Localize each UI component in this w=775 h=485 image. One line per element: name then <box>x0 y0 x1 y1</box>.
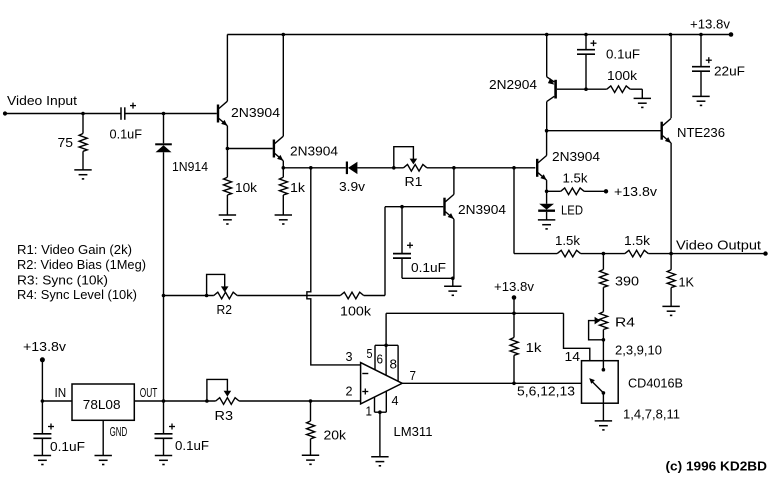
svg-text:5: 5 <box>367 346 373 361</box>
svg-text:3: 3 <box>346 349 353 364</box>
svg-text:R2: Video Bias (1Meg): R2: Video Bias (1Meg) <box>17 258 146 272</box>
svg-text:Video Input: Video Input <box>7 93 77 108</box>
svg-text:R2: R2 <box>217 302 233 317</box>
svg-text:2N3904: 2N3904 <box>552 149 600 164</box>
svg-text:1.5k: 1.5k <box>563 171 589 186</box>
svg-text:2N2904: 2N2904 <box>489 77 537 92</box>
svg-text:0.1uF: 0.1uF <box>110 126 143 141</box>
svg-text:+13.8v: +13.8v <box>494 279 534 294</box>
svg-text:2N3904: 2N3904 <box>458 202 506 217</box>
svg-text:5,6,12,13: 5,6,12,13 <box>517 384 575 399</box>
svg-text:R3: Sync (10k): R3: Sync (10k) <box>17 274 108 288</box>
svg-text:3.9v: 3.9v <box>339 179 366 194</box>
svg-text:+13.8v: +13.8v <box>23 339 67 354</box>
svg-text:2,3,9,10: 2,3,9,10 <box>615 343 662 358</box>
svg-text:6: 6 <box>377 352 384 367</box>
svg-text:1k: 1k <box>526 340 543 355</box>
svg-text:1N914: 1N914 <box>172 159 208 174</box>
svg-text:0.1uF: 0.1uF <box>411 260 446 275</box>
svg-text:LM311: LM311 <box>394 424 433 439</box>
svg-text:4: 4 <box>392 393 399 408</box>
svg-text:IN: IN <box>55 385 67 400</box>
svg-text:LED: LED <box>561 203 583 218</box>
svg-text:2N3904: 2N3904 <box>231 105 280 120</box>
svg-text:75: 75 <box>58 135 74 150</box>
svg-text:R1: Video Gain (2k): R1: Video Gain (2k) <box>17 243 132 257</box>
svg-text:0.1uF: 0.1uF <box>50 439 85 454</box>
svg-text:R4: Sync Level (10k): R4: Sync Level (10k) <box>17 288 137 302</box>
svg-text:NTE236: NTE236 <box>677 125 725 140</box>
svg-text:1,4,7,8,11: 1,4,7,8,11 <box>623 407 680 422</box>
svg-text:0.1uF: 0.1uF <box>606 47 640 62</box>
svg-text:390: 390 <box>615 274 639 289</box>
svg-text:78L08: 78L08 <box>83 397 121 412</box>
svg-text:10k: 10k <box>235 180 258 195</box>
svg-text:OUT: OUT <box>140 385 158 400</box>
svg-text:+13.8v: +13.8v <box>614 184 658 199</box>
svg-text:CD4016B: CD4016B <box>628 376 683 391</box>
svg-text:R4: R4 <box>615 315 635 330</box>
svg-text:R1: R1 <box>405 174 423 189</box>
svg-text:GND: GND <box>110 424 128 439</box>
svg-text:14: 14 <box>565 349 581 364</box>
svg-text:20k: 20k <box>324 428 347 443</box>
svg-text:(c) 1996 KD2BD: (c) 1996 KD2BD <box>666 460 768 474</box>
svg-text:1.5k: 1.5k <box>555 233 581 248</box>
svg-text:22uF: 22uF <box>714 64 745 79</box>
svg-text:1.5k: 1.5k <box>624 233 651 248</box>
svg-text:+13.8v: +13.8v <box>690 17 730 32</box>
svg-text:100k: 100k <box>340 304 372 319</box>
svg-text:7: 7 <box>410 368 417 383</box>
svg-text:0.1uF: 0.1uF <box>175 438 209 453</box>
svg-text:1k: 1k <box>290 180 306 195</box>
svg-text:8: 8 <box>390 357 398 372</box>
svg-text:Video Output: Video Output <box>676 238 761 253</box>
svg-text:100k: 100k <box>607 68 638 83</box>
svg-text:2: 2 <box>346 384 353 399</box>
svg-text:1: 1 <box>366 404 373 419</box>
svg-text:R3: R3 <box>215 408 234 423</box>
svg-text:1K: 1K <box>679 275 695 290</box>
svg-text:2N3904: 2N3904 <box>290 144 338 159</box>
